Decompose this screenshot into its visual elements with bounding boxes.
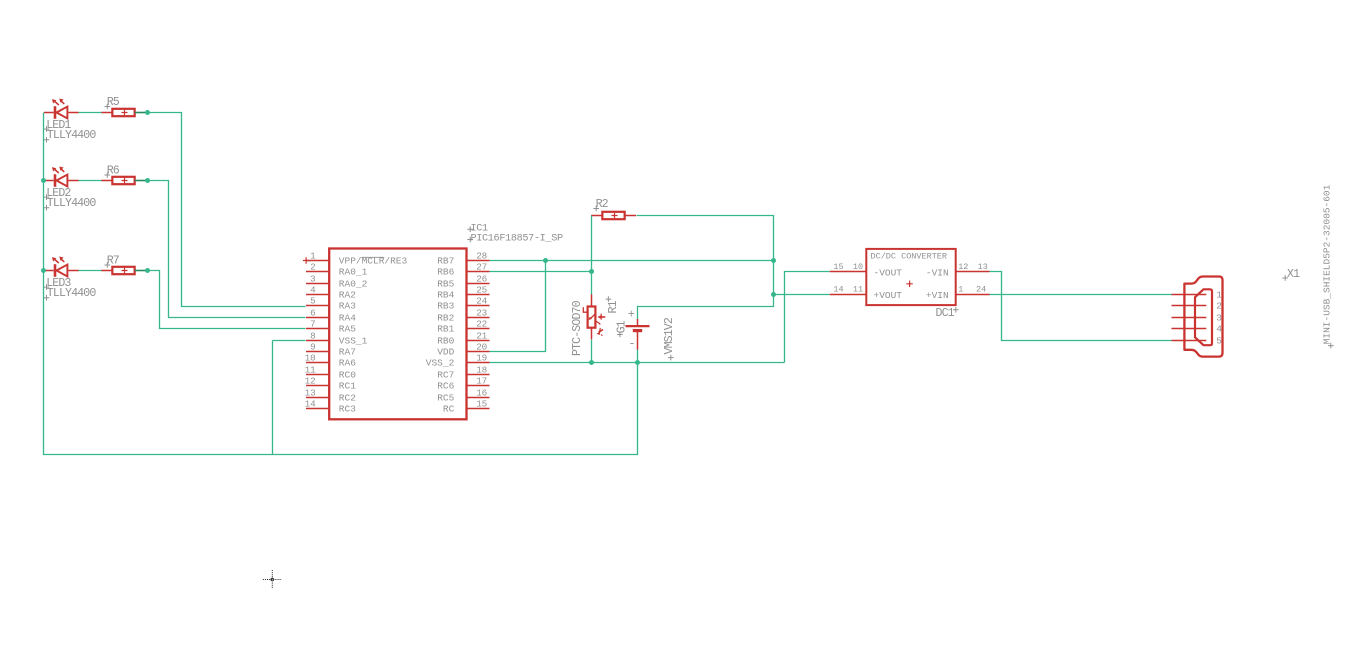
wire to VDD pin 20 (490, 261, 546, 352)
LED LED1 TLLY4400 (44, 99, 79, 119)
svg-text:15: 15 (833, 262, 843, 272)
svg-text:3: 3 (310, 274, 315, 285)
svg-text:VSS_2: VSS_2 (426, 358, 455, 369)
pin 8 (VSS_1) (306, 331, 368, 347)
resistor R2 (591, 212, 636, 219)
pin 2 of X1 (1172, 301, 1223, 312)
LED LED2 TLLY4400 (44, 167, 79, 187)
svg-text:MINI-USB_SHIELD5P2-32005-601: MINI-USB_SHIELD5P2-32005-601 (1322, 184, 1333, 344)
svg-text:20: 20 (476, 342, 487, 353)
svg-text:27: 27 (476, 262, 487, 273)
junction (543, 258, 548, 263)
svg-text:VDD: VDD (437, 347, 454, 358)
svg-text:12: 12 (958, 262, 968, 272)
svg-text:RB6: RB6 (437, 267, 454, 278)
svg-text:+: + (628, 309, 635, 322)
pin 3 of X1 (1172, 313, 1223, 324)
resistor R7 (101, 267, 146, 274)
svg-text:12: 12 (305, 376, 316, 387)
pin 11 (RC0) (305, 365, 357, 381)
svg-text:1: 1 (1216, 290, 1222, 301)
pin 15 (RC) (443, 399, 490, 415)
svg-text:VSS_1: VSS_1 (339, 336, 368, 347)
pin 6 (RA4) (306, 308, 356, 324)
svg-text:25: 25 (476, 285, 487, 296)
svg-text:RA0_1: RA0_1 (339, 267, 368, 278)
pin 12 (RC1) (305, 376, 357, 392)
svg-text:24: 24 (976, 285, 986, 295)
svg-text:RC5: RC5 (437, 393, 454, 404)
wire -VIN to USB pin 5 (990, 272, 1172, 341)
pin 10 (RA6) (305, 353, 357, 369)
svg-text:R2: R2 (596, 198, 609, 211)
pin 22 (RB1) (437, 319, 489, 335)
DC1 origin cross (906, 281, 912, 287)
svg-text:TLLY4400: TLLY4400 (47, 197, 97, 210)
pin 19 (VSS_2) (426, 353, 490, 369)
svg-text:RA5: RA5 (339, 324, 356, 335)
wire R6 out (136, 180, 148, 182)
svg-text:22: 22 (476, 319, 487, 330)
svg-text:13: 13 (305, 388, 316, 399)
pin 1 origin cross (303, 257, 309, 263)
svg-text:4: 4 (1216, 324, 1222, 335)
svg-text:R7: R7 (107, 255, 120, 268)
resistor R6 (101, 177, 146, 184)
svg-text:21: 21 (476, 331, 487, 342)
pin 4 (RA2) (306, 285, 356, 301)
junction (771, 258, 776, 263)
pin 4 of X1 (1172, 324, 1223, 335)
svg-text:-VOUT: -VOUT (874, 267, 903, 278)
wire R5 to RA3 pin 5 (148, 113, 306, 307)
pin 16 (RC5) (437, 388, 489, 404)
svg-text:R6: R6 (107, 165, 120, 178)
wire to -VOUT (785, 272, 830, 363)
junction (589, 360, 594, 365)
svg-text:14: 14 (833, 285, 843, 295)
svg-text:9: 9 (310, 342, 315, 353)
svg-text:8: 8 (310, 331, 315, 342)
wire to battery + (638, 295, 774, 320)
svg-text:RA4: RA4 (339, 313, 356, 324)
svg-text:RA2: RA2 (339, 290, 356, 301)
svg-text:18: 18 (476, 365, 487, 376)
svg-text:13: 13 (978, 262, 988, 272)
junction (41, 268, 46, 273)
svg-text:PTC-SOD70: PTC-SOD70 (571, 300, 584, 356)
wire R2 to PTC (591, 216, 593, 295)
svg-text:5: 5 (310, 296, 315, 307)
pin 13 (RC2) (305, 388, 357, 404)
svg-text:26: 26 (476, 274, 487, 285)
wire LED cathode rail to VSS net (44, 113, 638, 455)
wire to +VOUT (774, 294, 830, 296)
junction (41, 178, 46, 183)
svg-text:23: 23 (476, 308, 487, 319)
junction (635, 360, 640, 365)
pin 1 (VPP/MCLR/RE3) (306, 251, 408, 267)
svg-text:DC1: DC1 (936, 307, 955, 320)
pin 9 (RA7) (306, 342, 356, 358)
pin stub 12/13 (956, 262, 990, 272)
pin 24 (RB3) (437, 296, 489, 312)
svg-text:TLLY4400: TLLY4400 (47, 287, 97, 300)
junction (145, 178, 150, 183)
pin 27 (RB6) (437, 262, 489, 278)
svg-text:11: 11 (305, 365, 316, 376)
wire VSS_2 net (490, 362, 785, 364)
svg-text:RB1: RB1 (437, 324, 454, 335)
svg-text:2: 2 (310, 262, 315, 273)
svg-text:+VIN: +VIN (926, 290, 949, 301)
wire R2 to RB7 net (637, 216, 774, 261)
wire R7 to RA5 pin 7 (148, 271, 306, 329)
pin 17 (RC6) (437, 376, 489, 392)
wire VSS_1 pin 8 (273, 340, 306, 342)
pin stub 1/24 (956, 285, 990, 295)
svg-text:RC1: RC1 (339, 381, 356, 392)
PTC thermistor R1 PTC-SOD70 (583, 294, 605, 339)
svg-text:17: 17 (476, 376, 487, 387)
svg-text:-: - (629, 338, 635, 351)
svg-text:1: 1 (310, 251, 316, 262)
svg-text:RB5: RB5 (437, 279, 454, 290)
svg-text:RA6: RA6 (339, 358, 356, 369)
pin 28 (RB7) (437, 251, 489, 267)
wire R7 out (136, 270, 148, 272)
svg-text:RB2: RB2 (437, 313, 454, 324)
wire R6 to RA4 pin 6 (148, 181, 306, 318)
wire R5 out (136, 112, 148, 114)
junction (145, 110, 150, 115)
svg-text:1: 1 (958, 285, 963, 295)
svg-text:DC/DC CONVERTER: DC/DC CONVERTER (871, 252, 948, 262)
op-amp/microcontroller IC1 PIC16F18857-I_SP (329, 249, 466, 420)
svg-text:2: 2 (1216, 301, 1222, 312)
svg-text:3: 3 (1216, 313, 1222, 324)
pin 5 of X1 (1172, 336, 1223, 347)
svg-text:28: 28 (476, 251, 487, 262)
connector X1 MINI-USB_SHIELD5P2-32005-601 (1184, 277, 1222, 357)
svg-text:RA0_2: RA0_2 (339, 279, 368, 290)
svg-text:RA7: RA7 (339, 347, 356, 358)
pin stub 15/10 (830, 262, 867, 272)
svg-text:15: 15 (476, 399, 487, 410)
svg-text:RB7: RB7 (437, 256, 454, 267)
wire RB7 net (490, 260, 774, 262)
svg-text:-VIN: -VIN (926, 267, 949, 278)
pin stub 14/11 (830, 285, 867, 295)
svg-text:10: 10 (853, 262, 863, 272)
svg-text:RC7: RC7 (437, 370, 454, 381)
wire LED1-R5 (79, 112, 102, 114)
svg-text:VMS1V2: VMS1V2 (663, 317, 676, 354)
resistor R5 (101, 109, 146, 116)
pin 23 (RB2) (437, 308, 489, 324)
svg-text:G1: G1 (615, 320, 628, 333)
svg-text:R1: R1 (607, 300, 620, 313)
svg-text:+VOUT: +VOUT (874, 290, 903, 301)
svg-text:7: 7 (310, 319, 315, 330)
wire LED3-R7 (79, 270, 102, 272)
svg-text:RC3: RC3 (339, 404, 356, 415)
pin 26 (RB5) (437, 274, 489, 290)
wire PTC to VSS net (591, 340, 593, 363)
sheet origin marker (263, 570, 282, 589)
svg-text:RB4: RB4 (437, 290, 454, 301)
pin 1 of X1 (1172, 290, 1223, 301)
svg-text:RB0: RB0 (437, 336, 454, 347)
battery G1 VMS1V2 (626, 319, 650, 350)
svg-text:14: 14 (305, 399, 316, 410)
pin 14 (RC3) (305, 399, 357, 415)
svg-text:PIC16F18857-I_SP: PIC16F18857-I_SP (471, 234, 563, 245)
LED LED3 TLLY4400 (44, 257, 79, 277)
wire LED2-R6 (79, 180, 102, 182)
svg-text:RB3: RB3 (437, 301, 454, 312)
svg-text:R5: R5 (107, 96, 120, 109)
pin 21 (RB0) (437, 331, 489, 347)
svg-text:RC: RC (443, 404, 455, 415)
pin 18 (RC7) (437, 365, 489, 381)
DC/DC converter DC1 (866, 249, 955, 305)
svg-text:RC2: RC2 (339, 393, 356, 404)
svg-text:11: 11 (853, 285, 863, 295)
junction (145, 268, 150, 273)
svg-text:24: 24 (476, 296, 487, 307)
svg-text:X1: X1 (1287, 268, 1300, 281)
junction (771, 292, 776, 297)
svg-text:TLLY4400: TLLY4400 (47, 129, 97, 142)
svg-text:19: 19 (476, 353, 487, 364)
svg-text:4: 4 (310, 285, 316, 296)
wire +VIN to USB pin 1 (990, 294, 1172, 296)
svg-text:16: 16 (476, 388, 487, 399)
junction (589, 269, 594, 274)
svg-text:6: 6 (310, 308, 315, 319)
svg-text:10: 10 (305, 353, 316, 364)
wire down to +VOUT net (773, 261, 775, 295)
svg-text:RA3: RA3 (339, 301, 356, 312)
svg-text:5: 5 (1216, 336, 1222, 347)
pin 7 (RA5) (306, 319, 356, 335)
pin 5 (RA3) (306, 296, 356, 312)
wire VSS_1 down to rail (272, 341, 274, 455)
pin 20 (VDD) (437, 342, 489, 358)
pin 25 (RB4) (437, 285, 489, 301)
svg-text:RC6: RC6 (437, 381, 454, 392)
pin 2 (RA0_1) (306, 262, 368, 278)
svg-text:RC0: RC0 (339, 370, 356, 381)
wire RB6 net (490, 271, 592, 273)
wire battery - to VSS net (637, 350, 639, 363)
pin 3 (RA0_2) (306, 274, 368, 290)
